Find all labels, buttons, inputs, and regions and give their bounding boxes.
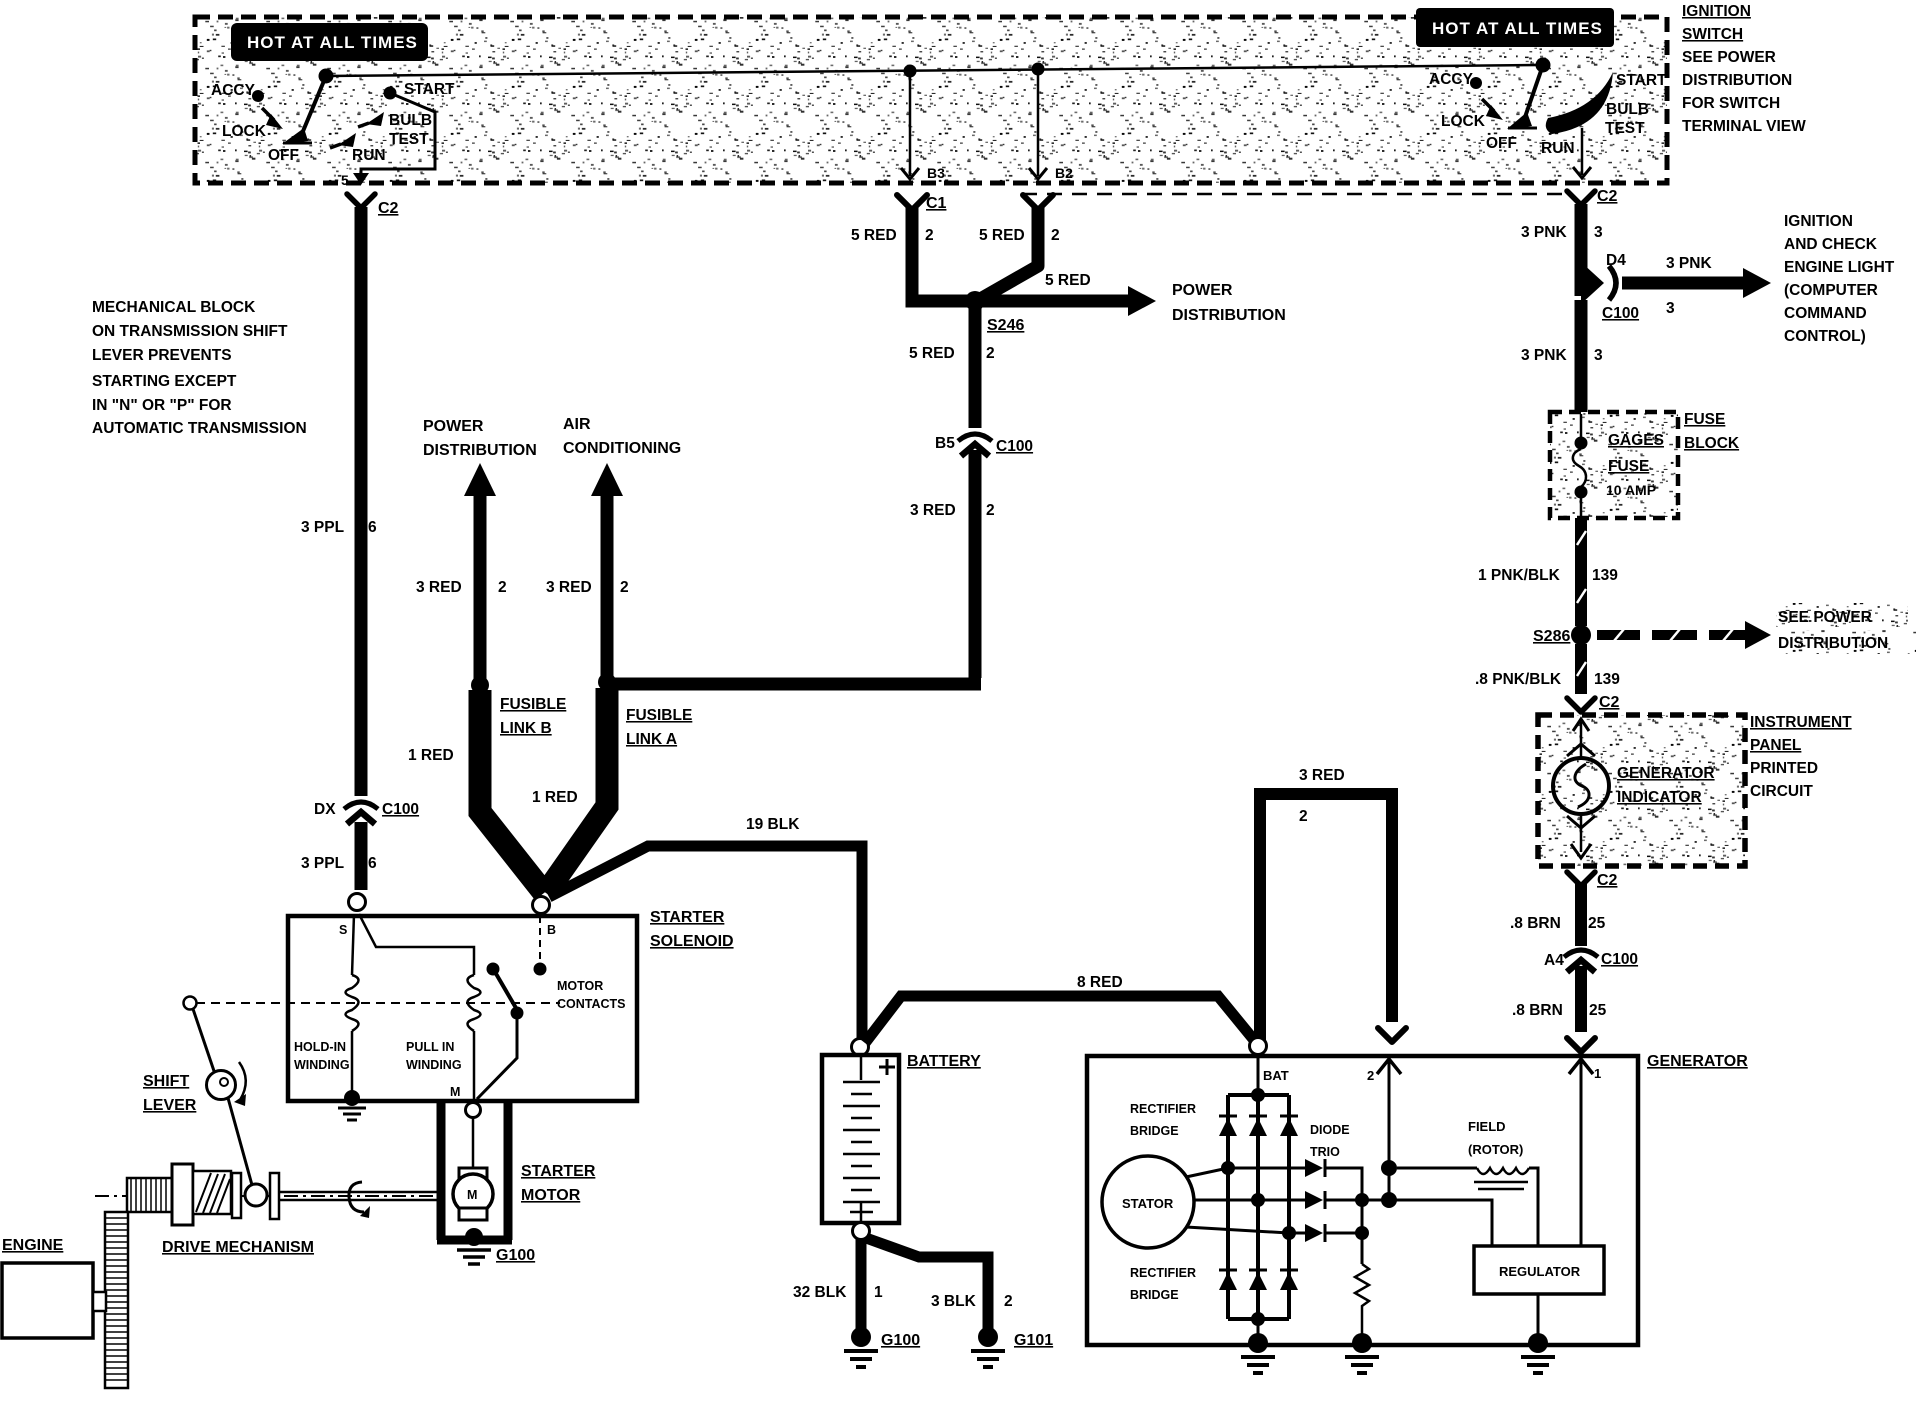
label 3 PPL 6 (lower): [301, 855, 377, 872]
svg-text:3 PPL: 3 PPL: [301, 519, 344, 536]
wire 5 RED from B2 to splice S246: [982, 195, 1053, 298]
svg-text:S246: S246: [987, 317, 1024, 334]
rectifier diodes top row: [1219, 1116, 1298, 1136]
label .8 BRN 25: [1510, 915, 1606, 932]
note IGNITION AND CHECK ENGINE LIGHT: [1784, 213, 1895, 345]
svg-text:RECTIFIER: RECTIFIER: [1130, 1102, 1196, 1116]
label HOT AT ALL TIMES (left): [231, 23, 428, 61]
note: ignition switch reference text: [1682, 3, 1806, 135]
fusible link B: [480, 690, 544, 893]
note: mechanical block text: [92, 299, 307, 437]
svg-text:START: START: [1616, 72, 1667, 89]
drive mechanism: splined shaft: [127, 1178, 172, 1212]
svg-text:MOTOR: MOTOR: [521, 1187, 581, 1204]
node fusible link B junction: [471, 676, 489, 694]
note AIR CONDITIONING: [563, 416, 681, 457]
label 3 PNK 3 (upper): [1521, 224, 1603, 241]
svg-text:M: M: [467, 1188, 477, 1202]
wire B2 drop: [1029, 69, 1073, 181]
label GENERATOR INDICATOR: [1617, 765, 1715, 806]
connector C2 (instrument panel out): [1567, 872, 1618, 889]
drive mechanism: yoke and shaft: [270, 1173, 437, 1219]
LOCK contact (right): [1441, 99, 1503, 130]
fusible link A: [546, 688, 607, 893]
svg-text:B2: B2: [1055, 165, 1073, 181]
label FIELD (ROTOR): [1468, 1119, 1523, 1157]
stator lead bottom: [1186, 1226, 1305, 1240]
battery cells: [843, 1056, 880, 1222]
svg-text:AIR: AIR: [563, 416, 591, 433]
ignition switch (right) lever to OFF: [1507, 65, 1543, 129]
wire 3 RED arrow to AIR CONDITIONING: [591, 463, 623, 682]
svg-text:POWER: POWER: [423, 418, 484, 435]
svg-text:STARTING EXCEPT: STARTING EXCEPT: [92, 373, 237, 390]
svg-text:BULB: BULB: [389, 112, 432, 129]
svg-text:RECTIFIER: RECTIFIER: [1130, 1266, 1196, 1280]
label RECTIFIER BRIDGE (top): [1130, 1102, 1196, 1138]
svg-text:CONTACTS: CONTACTS: [557, 997, 626, 1011]
svg-text:D4: D4: [1606, 252, 1626, 269]
svg-text:S: S: [339, 923, 347, 937]
svg-text:COMMAND: COMMAND: [1784, 305, 1867, 322]
connector DX C100: [314, 801, 419, 824]
label 3 PPL 6 (upper): [301, 519, 377, 536]
generator terminal 1 arrow: [1569, 1059, 1601, 1246]
svg-text:2: 2: [986, 502, 995, 519]
svg-text:3 RED: 3 RED: [416, 579, 462, 596]
label GAGES FUSE 10 AMP: [1606, 432, 1664, 498]
svg-text:IN "N" OR "P" FOR: IN "N" OR "P" FOR: [92, 397, 232, 414]
svg-text:INSTRUMENT: INSTRUMENT: [1750, 714, 1852, 731]
svg-text:3 RED: 3 RED: [546, 579, 592, 596]
svg-text:FOR SWITCH: FOR SWITCH: [1682, 95, 1780, 112]
BULB TEST contact: [358, 112, 432, 148]
generator terminal 2 arrow: [1367, 1059, 1401, 1168]
svg-text:DISTRIBUTION: DISTRIBUTION: [423, 442, 537, 459]
svg-text:1 RED: 1 RED: [532, 789, 578, 806]
svg-text:.8 BRN: .8 BRN: [1512, 1002, 1563, 1019]
svg-text:FIELD: FIELD: [1468, 1119, 1506, 1134]
ground (hold-in winding, inside solenoid): [338, 1090, 366, 1120]
svg-text:C2: C2: [1597, 188, 1618, 205]
drive mechanism: collar: [232, 1173, 241, 1218]
svg-text:CIRCUIT: CIRCUIT: [1750, 783, 1813, 800]
svg-text:A4: A4: [1544, 952, 1564, 969]
wire 5 RED arrow to power distribution: [983, 272, 1156, 316]
wire 1 PNK/BLK fuse to S286: [1577, 518, 1586, 626]
pull-in winding coil: [468, 975, 481, 1099]
label 3 RED 2: [1299, 767, 1345, 825]
svg-text:BRIDGE: BRIDGE: [1130, 1288, 1179, 1302]
svg-text:1: 1: [1594, 1066, 1601, 1081]
svg-text:SOLENOID: SOLENOID: [650, 933, 734, 950]
connector A4 C100: [1544, 950, 1638, 972]
note POWER DISTRIBUTION (left): [423, 418, 537, 459]
svg-text:FUSIBLE: FUSIBLE: [626, 707, 692, 724]
svg-text:FUSE: FUSE: [1608, 458, 1649, 475]
svg-text:ENGINE: ENGINE: [2, 1237, 64, 1254]
svg-text:IGNITION: IGNITION: [1784, 213, 1853, 230]
wire M to motor: [472, 1117, 475, 1170]
svg-text:TRIO: TRIO: [1310, 1145, 1340, 1159]
stator lead top: [1186, 1161, 1305, 1177]
svg-text:.8 PNK/BLK: .8 PNK/BLK: [1475, 671, 1562, 688]
svg-text:SEE POWER: SEE POWER: [1778, 609, 1872, 626]
connector B5 C100: [935, 434, 1033, 456]
svg-text:DX: DX: [314, 801, 336, 818]
svg-text:1 RED: 1 RED: [408, 747, 454, 764]
svg-text:C100: C100: [1602, 305, 1639, 322]
field rotor coil: [1397, 1168, 1538, 1246]
svg-text:C2: C2: [378, 200, 399, 217]
svg-text:5 RED: 5 RED: [1045, 272, 1091, 289]
instrument panel dashed box: [1538, 715, 1745, 866]
svg-text:25: 25: [1589, 1002, 1607, 1019]
wire field feed to regulator: [1389, 1168, 1492, 1246]
svg-text:OFF: OFF: [1486, 135, 1517, 152]
stator lead middle: [1194, 1193, 1305, 1207]
wire: START to terminal 5: [341, 93, 435, 188]
wire: S to pull-in winding: [359, 914, 474, 975]
svg-text:BLOCK: BLOCK: [1684, 435, 1740, 452]
ignition switch (right) pivot: [1536, 58, 1551, 73]
svg-text:WINDING: WINDING: [294, 1058, 350, 1072]
svg-text:FUSIBLE: FUSIBLE: [500, 696, 566, 713]
dashed link line shift lever to windings: [196, 1002, 560, 1004]
svg-text:LOCK: LOCK: [1441, 113, 1486, 130]
BULB TEST / START labels (right): [1605, 72, 1667, 137]
svg-text:START: START: [404, 81, 455, 98]
svg-text:C100: C100: [996, 438, 1033, 455]
motor contact fixed points: [487, 963, 547, 976]
svg-text:INDICATOR: INDICATOR: [1617, 789, 1702, 806]
shift lever: [184, 997, 253, 1186]
wire 3 RED arrow to POWER DISTRIBUTION (left): [464, 463, 496, 685]
svg-text:ACCY: ACCY: [211, 82, 256, 99]
svg-text:TEST: TEST: [1605, 120, 1645, 137]
secondary dashed border segment: [1022, 193, 1568, 196]
wire dashed arrow to power distribution: [1597, 621, 1771, 649]
svg-text:6: 6: [368, 519, 377, 536]
splice S286: [1533, 625, 1591, 645]
svg-text:DRIVE MECHANISM: DRIVE MECHANISM: [162, 1239, 314, 1256]
svg-text:RUN: RUN: [1541, 140, 1575, 157]
svg-text:PULL IN: PULL IN: [406, 1040, 454, 1054]
ground (regulator): [1521, 1294, 1555, 1373]
svg-text:BRIDGE: BRIDGE: [1130, 1124, 1179, 1138]
svg-text:S286: S286: [1533, 628, 1570, 645]
svg-text:5 RED: 5 RED: [851, 227, 897, 244]
wire 8 RED battery to generator BAT: [865, 996, 1254, 1043]
label MOTOR CONTACTS: [557, 979, 626, 1011]
svg-text:32 BLK: 32 BLK: [793, 1284, 847, 1301]
label FUSE BLOCK: [1684, 411, 1740, 452]
label 5 RED 2 (B3 leg): [851, 227, 934, 244]
starter solenoid box: [288, 916, 637, 1101]
RUN contact: [330, 133, 386, 164]
svg-text:3 BLK: 3 BLK: [931, 1293, 977, 1310]
drive mechanism: pivot ball: [245, 1184, 267, 1206]
svg-text:DISTRIBUTION: DISTRIBUTION: [1778, 635, 1888, 652]
label 3 BLK 2: [931, 1293, 1013, 1310]
svg-text:2: 2: [620, 579, 629, 596]
wire: ignition feed bus (thin line across box): [326, 65, 1543, 76]
drive mechanism: snap ring: [349, 1182, 370, 1218]
connector C2 (right, top of 3 PNK wire): [1567, 188, 1618, 205]
label 5 RED 2 (B2 leg): [979, 227, 1060, 244]
svg-text:B3: B3: [927, 165, 945, 181]
svg-text:2: 2: [1004, 1293, 1013, 1310]
svg-text:TERMINAL VIEW: TERMINAL VIEW: [1682, 118, 1806, 135]
diode trio output bus: [1325, 1168, 1397, 1264]
svg-text:AND CHECK: AND CHECK: [1784, 236, 1878, 253]
svg-text:3 PNK: 3 PNK: [1666, 255, 1712, 272]
svg-text:139: 139: [1592, 567, 1618, 584]
label HOLD-IN WINDING: [294, 1040, 350, 1072]
svg-text:2: 2: [1299, 808, 1308, 825]
ground G100 (starter motor): [457, 1228, 535, 1264]
fuse block dashed box: [1550, 412, 1678, 518]
regulator box: [1474, 1246, 1604, 1294]
label SHIFT LEVER: [143, 1073, 197, 1114]
svg-text:IGNITION: IGNITION: [1682, 3, 1751, 20]
svg-text:TEST: TEST: [389, 131, 429, 148]
svg-text:LEVER: LEVER: [143, 1097, 197, 1114]
svg-text:LINK A: LINK A: [626, 731, 677, 748]
label 3 RED 2 (right): [910, 502, 995, 519]
svg-text:GAGES: GAGES: [1608, 432, 1664, 449]
generator box: [1087, 1056, 1638, 1345]
diode trio diodes: [1305, 1159, 1325, 1242]
rectifier diodes bottom row: [1219, 1270, 1298, 1290]
wire 19 BLK to battery: [549, 846, 862, 1040]
svg-text:2: 2: [498, 579, 507, 596]
svg-text:DIODE: DIODE: [1310, 1123, 1350, 1137]
svg-text:FUSE: FUSE: [1684, 411, 1725, 428]
node B3 junction on bus: [904, 65, 917, 78]
svg-text:5: 5: [341, 172, 349, 188]
svg-text:(ROTOR): (ROTOR): [1468, 1142, 1523, 1157]
drive mechanism centerline: [95, 1195, 437, 1197]
svg-text:C100: C100: [1601, 951, 1638, 968]
connector D4 C100: [1581, 252, 1639, 322]
svg-text:SEE POWER: SEE POWER: [1682, 49, 1776, 66]
label PULL IN WINDING: [406, 1040, 462, 1072]
label FUSIBLE LINK A: [626, 707, 692, 748]
svg-text:DISTRIBUTION: DISTRIBUTION: [1172, 307, 1286, 324]
wire .8 BRN C2 to A4 C100: [1575, 884, 1587, 946]
svg-text:GENERATOR: GENERATOR: [1647, 1053, 1748, 1070]
hot-at-all-times bus box (ignition switch housing): [195, 17, 1667, 183]
wire 3 PNK to fuse block: [1575, 300, 1588, 414]
svg-text:OFF: OFF: [268, 147, 299, 164]
svg-text:ENGINE LIGHT: ENGINE LIGHT: [1784, 259, 1895, 276]
svg-text:HOLD-IN: HOLD-IN: [294, 1040, 346, 1054]
wire 3 RED C100 to fusible link A junction: [612, 450, 981, 684]
svg-text:LEVER PREVENTS: LEVER PREVENTS: [92, 347, 232, 364]
svg-text:MECHANICAL BLOCK: MECHANICAL BLOCK: [92, 299, 256, 316]
svg-text:BAT: BAT: [1263, 1068, 1289, 1083]
ACCY contact (right): [1429, 71, 1482, 89]
node field junction: [1381, 1160, 1397, 1176]
svg-text:5 RED: 5 RED: [979, 227, 1025, 244]
label 3 PNK 3 (lower): [1521, 347, 1603, 364]
svg-text:3 RED: 3 RED: [1299, 767, 1345, 784]
ground G100 (battery): [844, 1327, 920, 1367]
ground (diode trio): [1345, 1333, 1379, 1373]
label DIODE TRIO: [1310, 1123, 1350, 1159]
wire BAT feed inside generator: [1257, 1056, 1260, 1095]
svg-text:PRINTED: PRINTED: [1750, 760, 1818, 777]
svg-text:3: 3: [1594, 347, 1603, 364]
ACCY contact: [211, 82, 264, 102]
svg-text:B5: B5: [935, 435, 955, 452]
svg-text:SHIFT: SHIFT: [143, 1073, 189, 1090]
label 3 RED 2: [546, 579, 629, 596]
svg-text:3 PNK: 3 PNK: [1521, 347, 1567, 364]
connector C2 (instrument panel in): [1567, 694, 1620, 712]
svg-text:1: 1: [874, 1284, 883, 1301]
motor contacts: dashed feed from B: [539, 916, 541, 963]
generator BAT terminal circle: [1250, 1038, 1267, 1055]
svg-text:5 RED: 5 RED: [909, 345, 955, 362]
starter motor frame: [437, 1103, 512, 1240]
label 3 RED 2: [416, 579, 507, 596]
svg-text:8 RED: 8 RED: [1077, 974, 1123, 991]
node B2 junction on bus: [1032, 63, 1045, 76]
svg-text:STARTER: STARTER: [521, 1163, 596, 1180]
svg-text:3 RED: 3 RED: [910, 502, 956, 519]
LOCK contact: [222, 108, 283, 140]
svg-text:STATOR: STATOR: [1122, 1196, 1174, 1211]
ignition switch (left) lever to OFF: [282, 76, 326, 144]
svg-text:POWER: POWER: [1172, 282, 1233, 299]
wire 32 BLK to G100: [856, 1239, 867, 1330]
svg-text:CONTROL): CONTROL): [1784, 328, 1866, 345]
rectifier bridge frame: [1228, 1095, 1289, 1319]
gages fuse element: [1573, 414, 1588, 518]
node bridge top: [1251, 1088, 1265, 1102]
svg-text:1 PNK/BLK: 1 PNK/BLK: [1478, 567, 1561, 584]
svg-text:C100: C100: [382, 801, 419, 818]
label .8 PNK/BLK 139: [1475, 671, 1620, 688]
svg-text:.8 BRN: .8 BRN: [1510, 915, 1561, 932]
svg-text:G100: G100: [496, 1247, 535, 1264]
svg-text:ON TRANSMISSION SHIFT: ON TRANSMISSION SHIFT: [92, 323, 288, 340]
svg-text:C2: C2: [1599, 694, 1620, 711]
connector C2 (left, top of 3 PPL wire): [347, 194, 399, 217]
svg-text:B: B: [547, 923, 556, 937]
battery negative terminal: [853, 1223, 870, 1240]
svg-text:MOTOR: MOTOR: [557, 979, 603, 993]
svg-text:3: 3: [1594, 224, 1603, 241]
wire .8 BRN to generator terminal 1: [1567, 966, 1595, 1052]
resistor: [1355, 1264, 1369, 1336]
drive mechanism: flange: [172, 1164, 193, 1225]
svg-text:WINDING: WINDING: [406, 1058, 462, 1072]
START contact: [384, 81, 456, 100]
svg-text:HOT AT ALL TIMES: HOT AT ALL TIMES: [1432, 19, 1603, 38]
key sweep arc RUN to START: [1546, 72, 1613, 134]
label RECTIFIER BRIDGE (bottom): [1130, 1266, 1196, 1302]
svg-text:AUTOMATIC TRANSMISSION: AUTOMATIC TRANSMISSION: [92, 420, 307, 437]
svg-text:SWITCH: SWITCH: [1682, 26, 1743, 43]
terminal B circle (solenoid): [533, 897, 550, 914]
wire: right switch RUN terminal drop: [1573, 128, 1591, 178]
svg-text:BULB: BULB: [1606, 101, 1649, 118]
svg-text:STARTER: STARTER: [650, 909, 725, 926]
drive mechanism: helical spline: [193, 1171, 231, 1214]
svg-text:3 PNK: 3 PNK: [1521, 224, 1567, 241]
wire 5 RED from C1 to splice S246: [897, 195, 968, 301]
svg-text:6: 6: [368, 855, 377, 872]
svg-text:M: M: [450, 1085, 460, 1099]
svg-text:G100: G100: [881, 1332, 920, 1349]
wire 3 PPL (ignition C2 to solenoid S): [355, 207, 368, 890]
svg-text:139: 139: [1594, 671, 1620, 688]
svg-text:2: 2: [1367, 1068, 1374, 1083]
wire 5 RED splice to C100 B5: [969, 309, 982, 428]
svg-text:2: 2: [1051, 227, 1060, 244]
svg-text:ACCY: ACCY: [1429, 71, 1474, 88]
svg-text:GENERATOR: GENERATOR: [1617, 765, 1715, 782]
battery plus sign: [879, 1059, 895, 1075]
svg-text:G101: G101: [1014, 1332, 1053, 1349]
svg-text:LOCK: LOCK: [222, 123, 267, 140]
svg-text:3: 3: [1666, 300, 1675, 317]
svg-text:DISTRIBUTION: DISTRIBUTION: [1682, 72, 1792, 89]
label .8 BRN 25 (lower): [1512, 1002, 1607, 1019]
hold-in winding coil: [346, 914, 359, 1097]
wire 3 PNK ignition C2 down: [1575, 204, 1588, 296]
svg-text:RUN: RUN: [352, 147, 386, 164]
wire 3 PNK arrow to check engine light: [1622, 255, 1771, 317]
splice S246: [965, 291, 1024, 334]
label 5 RED 2: [909, 345, 995, 362]
pinion gear rack: [105, 1212, 128, 1388]
note SEE POWER DISTRIBUTION: [1776, 603, 1916, 654]
svg-text:19 BLK: 19 BLK: [746, 816, 800, 833]
battery box: [822, 1055, 899, 1223]
field core bars: [1474, 1182, 1528, 1189]
node bridge bottom: [1251, 1312, 1265, 1326]
note INSTRUMENT PANEL PRINTED CIRCUIT: [1750, 714, 1852, 800]
ignition switch (left) pivot: [319, 69, 334, 84]
svg-text:3 PPL: 3 PPL: [301, 855, 344, 872]
svg-text:2: 2: [986, 345, 995, 362]
svg-text:HOT AT ALL TIMES: HOT AT ALL TIMES: [247, 33, 418, 52]
ground (rectifier bridge / BAT column): [1241, 1319, 1275, 1373]
stator winding circle: [1102, 1156, 1194, 1248]
svg-text:C1: C1: [926, 195, 947, 212]
wire B3 drop: [901, 71, 945, 181]
svg-text:2: 2: [925, 227, 934, 244]
svg-text:LINK B: LINK B: [500, 720, 552, 737]
engine block: [2, 1263, 106, 1338]
svg-text:CONDITIONING: CONDITIONING: [563, 440, 681, 457]
wire 3 RED loop to generator terminal 2: [1254, 794, 1406, 1042]
motor contact arm: [477, 972, 524, 1099]
node fusible link A junction: [598, 673, 616, 691]
generator indicator lamp: [1553, 719, 1609, 858]
note POWER DISTRIBUTION (right arrow): [1172, 282, 1286, 324]
svg-text:(COMPUTER: (COMPUTER: [1784, 282, 1878, 299]
terminal S circle: [349, 894, 366, 911]
svg-text:10 AMP: 10 AMP: [1606, 482, 1656, 498]
starter motor M: [453, 1168, 493, 1220]
label HOT AT ALL TIMES (right): [1416, 8, 1614, 47]
battery positive terminal: [852, 1039, 869, 1056]
